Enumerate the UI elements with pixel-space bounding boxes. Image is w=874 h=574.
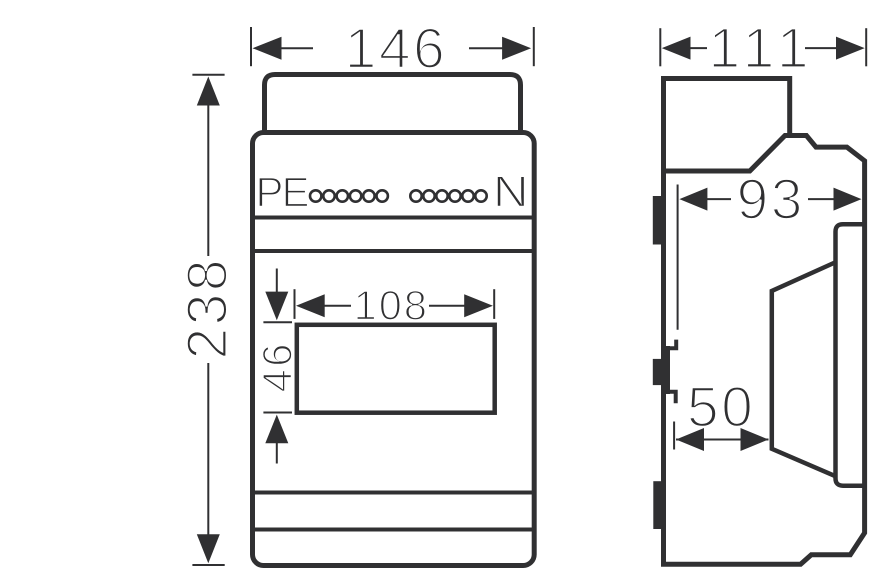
side view: terminal cone trapezoid [772,262,836,476]
side view: body silhouette [661,136,865,565]
side view: clip tab top [653,196,661,245]
side view: rail hook lower [668,392,676,403]
side view: rail hook upper [668,340,676,349]
side view: flange slot [836,224,864,486]
dimension 111 [660,28,866,66]
side view: clip tab middle [653,359,662,385]
PE label [259,178,308,207]
front view: body outline [253,133,535,566]
front view: bottom rib line lower [254,528,533,532]
side view: cover profile [664,79,790,173]
front view: bottom rib line upper [254,491,533,495]
side view [661,79,865,565]
dimension 108 [295,289,495,319]
dimension 46 [263,269,292,464]
dimension 238 [192,75,224,565]
front view: cover cap [265,75,521,135]
front view: terminal strip line lower [254,249,533,253]
front view: terminal strip line upper [254,216,533,220]
dimension 93 [678,185,862,330]
dimension 50 [674,422,768,452]
side view: DIN rail channel thick section [661,346,670,394]
front view: window cutout 108x46 [297,325,495,413]
side view: clip tab bottom [653,481,662,529]
terminal circles group 1 [310,190,388,201]
dimension 146 [251,27,534,66]
N label [497,176,525,206]
terminal circles group 2 [410,190,486,201]
